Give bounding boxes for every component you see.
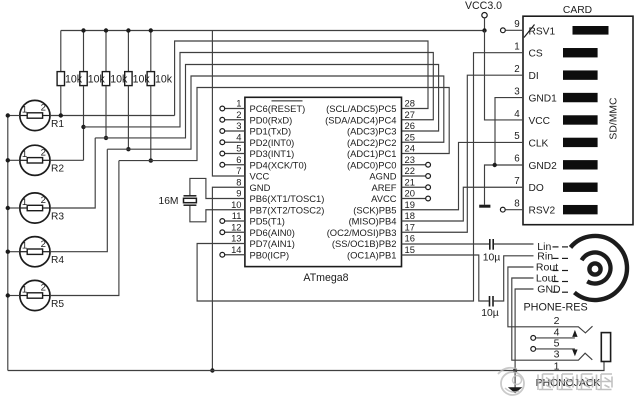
pin 22 AGND [369,165,430,181]
pin 28 (SCL/ADC5)PC5 [326,98,415,114]
pin 3 PD1(TxD) [220,120,291,136]
speaker PHONE-RES outer coil [571,236,627,300]
svg-text:21: 21 [405,176,415,187]
wire ADC net 3 over chip to pin 26 [95,65,438,138]
pin 8 GND [236,176,270,192]
card pin 2 DI [514,64,597,82]
crystal X1 16M [158,196,196,207]
svg-text:1: 1 [22,241,27,252]
svg-text:13: 13 [231,233,241,244]
svg-text:(SS/OC1B)PB2: (SS/OC1B)PB2 [332,238,397,249]
svg-text:CS: CS [529,49,543,60]
wire 10k#1 to R1 row [60,86,62,116]
wire card pin9 RSV1 stub (NC) [501,28,524,33]
svg-text:(SCL/ADC5)PC5: (SCL/ADC5)PC5 [326,103,396,114]
wire R5 row [50,161,119,296]
dashed lead [553,246,559,248]
svg-text:PD3(INT1): PD3(INT1) [250,148,295,159]
wire sensor pin1 stub [8,207,20,209]
svg-text:VCC: VCC [250,171,270,182]
svg-text:25: 25 [405,131,415,142]
svg-text:(MISO)PB4: (MISO)PB4 [349,216,397,227]
wire pin16 OC1B to C1 [402,243,490,245]
pin 23 (ADC0)PC0 [347,154,431,170]
junction R3 net [104,136,108,140]
wire left ground bus [7,116,9,371]
svg-text:CLK: CLK [529,138,549,149]
sensor R1 [20,100,65,130]
svg-text:PD0(RxD): PD0(RxD) [250,114,293,125]
svg-text:7: 7 [514,176,519,187]
wire R2 row [50,159,84,161]
svg-text:10k: 10k [110,73,128,85]
wire GND to jack ground [515,289,533,388]
svg-text:10µ: 10µ [481,308,499,319]
svg-text:R3: R3 [51,211,64,222]
svg-text:PB0(ICP): PB0(ICP) [250,249,290,260]
watermark logo [498,368,524,395]
svg-text:RSV2: RSV2 [529,206,556,217]
pin 2 PD0(RxD) [220,109,292,125]
wire ADC net 5 over chip to pin 24 [119,88,449,161]
svg-text:3: 3 [554,349,560,361]
pin 9 PB6(XT1/TOSC1) [236,188,324,204]
svg-text:AVCC: AVCC [371,193,397,204]
dashed lead [553,291,559,293]
svg-text:PD1(TxD): PD1(TxD) [250,126,292,137]
svg-text:2: 2 [236,109,241,120]
svg-text:5: 5 [514,131,520,142]
svg-text:17: 17 [405,221,415,232]
VCC3.0 supply symbol [465,0,502,33]
wire ADC net 4 over chip to pin 25 [107,76,444,149]
svg-text:8: 8 [236,176,241,187]
svg-text:R1: R1 [51,119,64,130]
pin 24 (ADC1)PC1 [347,143,415,159]
svg-text:SD/MMC: SD/MMC [609,97,620,140]
junction on VCC bus [81,28,85,32]
svg-text:16: 16 [405,233,415,244]
wire ADC net 2 over chip to pin 27 [84,53,434,127]
sensor R5 [20,280,65,310]
svg-text:28: 28 [405,98,415,109]
svg-text:2: 2 [514,64,519,75]
wire pin10 XT2 to crystal [190,205,245,222]
dashed lead [553,270,559,272]
svg-text:(ADC0)PC0: (ADC0)PC0 [347,159,397,170]
svg-text:16M: 16M [158,196,178,207]
wire R1 row to riser [50,115,175,117]
svg-text:(SCK)PB5: (SCK)PB5 [353,204,396,215]
svg-text:PB7(XT2/TOSC2): PB7(XT2/TOSC2) [250,204,325,215]
junction GND1/GND2 [493,163,497,167]
wire bottom ground bus to jack sleeve [8,362,604,371]
jack pin5 switch contact [531,347,578,357]
svg-text:PD7(AIN1): PD7(AIN1) [250,238,295,249]
wire pin9 XT1 to crystal [190,178,245,198]
pin 13 PD7(AIN1) [231,233,295,249]
svg-text:6: 6 [514,154,520,165]
capacitor C2 10u [481,296,499,319]
wire net CLK: card pin5 to chip pin19 SCK [402,142,524,209]
svg-text:GND1: GND1 [529,94,558,105]
wire net GND2: card pin6 to ground [485,165,524,205]
svg-text:6: 6 [236,154,241,165]
svg-text:22: 22 [405,165,415,176]
svg-text:PHONE-RES: PHONE-RES [523,302,587,314]
card pin 7 DO [514,176,597,194]
wire sensor pin1 stub [8,159,20,161]
svg-text:9: 9 [514,19,519,30]
pin 7 VCC [236,165,269,181]
svg-text:R4: R4 [51,255,64,266]
pin 4 PD2(INT0) [220,131,294,147]
svg-text:(OC1A)PB1: (OC1A)PB1 [347,249,397,260]
overline RESET [272,100,303,102]
wire C2 up to Rin [494,256,534,301]
svg-text:GND: GND [537,284,561,296]
wire Lout to jack pin3 [512,278,593,360]
node VCC3.0 top bus [61,30,485,32]
svg-text:7: 7 [236,165,241,176]
card pin 6 GND2 [514,154,597,172]
connector J1 SD/MMC card body [523,16,633,225]
svg-text:10k: 10k [88,73,106,85]
svg-text:Rin: Rin [537,251,553,263]
svg-text:10k: 10k [133,73,151,85]
junction R5 net [149,158,153,162]
svg-text:1: 1 [22,284,27,295]
svg-text:2: 2 [41,148,46,159]
pin 25 (ADC2)PC2 [347,131,415,147]
junction jack GND / bottom bus [513,368,517,372]
wire net DO: card pin7 to chip pin18 MISO [402,187,524,221]
svg-text:11: 11 [232,210,242,221]
svg-text:AGND: AGND [369,171,396,182]
junction GND/bottom bus [210,368,214,372]
svg-text:ATmega8: ATmega8 [303,272,348,284]
pin 1 PC6(RESET) [220,98,305,114]
svg-text:2: 2 [41,283,46,294]
resistor R10k_3 10k pullup [102,31,109,86]
svg-text:PD4(XCK/T0): PD4(XCK/T0) [250,159,307,170]
svg-text:1: 1 [22,149,27,160]
resistor R10k_5 10k pullup [147,31,154,86]
ground bar (card ground) [479,205,490,208]
junction 10k#2 branch [81,125,85,129]
svg-text:(SDA/ADC4)PC4: (SDA/ADC4)PC4 [325,114,396,125]
svg-text:4: 4 [236,131,241,142]
pin 20 AVCC [371,188,430,204]
wire pin8 GND to bottom bus [212,187,245,370]
svg-text:(ADC1)PC1: (ADC1)PC1 [347,148,397,159]
card pin 9 RSV1 [514,19,608,37]
svg-text:8: 8 [514,198,520,209]
speaker PHONE-RES middle coil [582,253,611,284]
watermark text [538,374,612,390]
sensor R4 [20,237,65,267]
wire card pin8 RSV2 stub (NC) [500,207,523,212]
resistor R10k_4 10k pullup [125,31,132,86]
wire R4 row [50,149,107,252]
svg-text:R2: R2 [51,164,64,175]
junction left bus [6,206,10,210]
pin 19 (SCK)PB5 [353,199,415,215]
resistor R10k_2 10k pullup [80,31,87,86]
junction R1/10k#1 [59,113,63,117]
pin 16 (SS/OC1B)PB2 [332,233,415,249]
svg-text:26: 26 [405,120,415,131]
sensor R2 [20,145,65,175]
card pin 4 VCC [514,109,597,127]
dashed lead [553,257,559,259]
wire 10k#2 down to R2 row [83,86,85,161]
dashed lead [553,281,559,283]
junction left bus [6,250,10,254]
sensor R3 [20,193,65,223]
svg-text:1: 1 [22,197,27,208]
svg-text:(ADC3)PC3: (ADC3)PC3 [347,126,397,137]
wire sensor pin1 stub [8,115,20,117]
wire 10k#3 down to branch [105,86,107,138]
card pin 8 RSV2 [514,198,597,216]
ground wedge (jack ground) [508,387,522,393]
wire pin7 VCC to top bus [212,31,245,177]
svg-text:5: 5 [236,143,241,154]
svg-text:4: 4 [514,109,520,120]
pin 14 PB0(ICP) [220,244,289,260]
svg-text:1: 1 [514,42,519,53]
pin 10 PB7(XT2/TOSC2) [231,199,324,215]
svg-text:CARD: CARD [563,5,592,16]
svg-text:10µ: 10µ [483,252,501,263]
wire net DI: card pin2 to chip pin17 MOSI [402,75,524,232]
wire Rout to jack pin2 [508,267,593,333]
svg-text:AREF: AREF [371,182,396,193]
svg-text:(OC2/MOSI)PB3: (OC2/MOSI)PB3 [327,227,397,238]
svg-text:DO: DO [529,183,544,194]
svg-text:VCC: VCC [529,116,551,127]
wire pin15 OC1A detour to C2 [402,255,489,301]
pin 6 PD4(XCK/T0) [220,154,307,170]
svg-text:DI: DI [529,71,539,82]
junction left bus [6,293,10,297]
svg-text:VCC3.0: VCC3.0 [465,0,502,12]
svg-text:PD6(AIN0): PD6(AIN0) [250,227,295,238]
pin 11 PD5(T1) [220,210,285,226]
svg-text:14: 14 [231,244,241,255]
svg-text:GND2: GND2 [529,161,558,172]
wire net GND1: card pin3 down to GND2 row [495,98,523,165]
svg-text:PD2(INT0): PD2(INT0) [250,137,295,148]
pin 5 PD3(INT1) [220,143,294,159]
svg-text:3: 3 [514,86,520,97]
pin 27 (SDA/ADC4)PC4 [325,109,415,125]
card pin 3 GND1 [514,86,597,104]
wire net CS: card pin1 to chip pin13 PD7 [197,53,523,301]
svg-text:24: 24 [405,143,415,154]
resistor R10k_1 10k pullup [57,31,64,86]
svg-text:20: 20 [405,188,415,199]
junction on VCC bus [149,28,153,32]
junction R4 net [126,147,130,151]
svg-text:1: 1 [22,104,27,115]
svg-text:GND: GND [250,182,271,193]
card pin 5 CLK [514,131,597,149]
card detect mark [524,25,535,38]
svg-text:R5: R5 [51,299,64,310]
pin 17 (OC2/MOSI)PB3 [327,221,415,237]
svg-text:15: 15 [405,244,415,255]
wire 10k#4 down to branch [127,86,129,150]
op IC U1 ATmega8 body [245,97,402,266]
pin 26 (ADC3)PC3 [347,120,415,136]
wire sensor pin1 stub [8,251,20,253]
svg-text:1: 1 [236,98,241,109]
wire C1 to Lin [494,243,534,245]
wire 10k#5 down to branch [150,86,152,161]
svg-text:2: 2 [41,103,46,114]
card pin 1 CS [514,42,597,60]
svg-text:12: 12 [231,221,241,232]
wire ADC net 1 over chip to pin 28 [175,41,428,116]
svg-text:9: 9 [236,188,241,199]
capacitor C1 10u [483,239,501,263]
junction on VCC bus [126,28,130,32]
svg-text:2: 2 [41,239,46,250]
svg-text:10k: 10k [65,73,83,85]
junction on VCC bus [104,28,108,32]
svg-text:19: 19 [405,199,415,210]
svg-text:10: 10 [231,199,241,210]
svg-text:PB6(XT1/TOSC1): PB6(XT1/TOSC1) [250,193,325,204]
pin 21 AREF [371,176,430,192]
jack body [601,333,610,362]
wire sensor pin1 stub [8,295,20,297]
svg-text:5: 5 [554,337,560,349]
jack pin4 switch contact [531,330,578,340]
pin 18 (MISO)PB4 [349,210,415,226]
svg-text:2: 2 [41,195,46,206]
wire net VCC: bus to card pin4 [485,31,524,120]
svg-text:27: 27 [405,109,415,120]
svg-text:PC6(RESET): PC6(RESET) [250,103,306,114]
pin 15 (OC1A)PB1 [347,244,415,260]
svg-text:18: 18 [405,210,415,221]
svg-text:10k: 10k [155,73,173,85]
svg-text:(ADC2)PC2: (ADC2)PC2 [347,137,397,148]
junction left bus [6,158,10,162]
junction left bus [6,113,10,117]
svg-text:PD5(T1): PD5(T1) [250,216,285,227]
svg-text:3: 3 [236,120,241,131]
wire R3 row [50,138,95,208]
svg-text:RSV1: RSV1 [529,26,556,37]
pin 12 PD6(AIN0) [220,221,295,237]
speaker PHONE-RES center [589,263,600,274]
svg-text:23: 23 [405,154,415,165]
